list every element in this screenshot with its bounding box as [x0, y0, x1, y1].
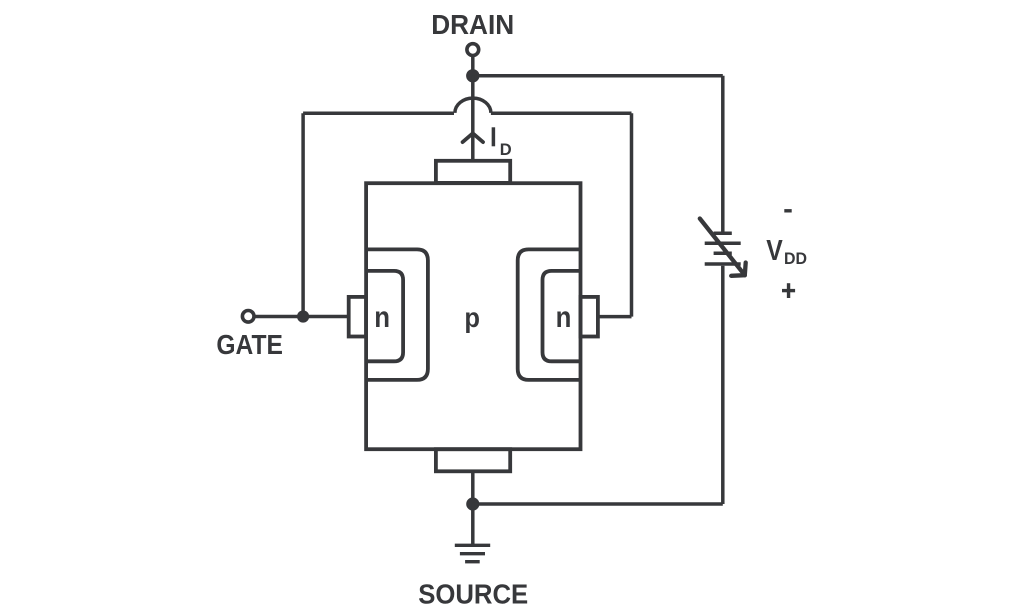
wire hop over drain wire [455, 98, 491, 113]
terminal circle GATE [242, 311, 254, 323]
svg-text:V: V [766, 235, 783, 267]
wire: into right gate contact [598, 315, 632, 319]
battery V_DD plates [705, 233, 741, 264]
svg-text:DD: DD [784, 250, 807, 268]
drain contact pad (top) [436, 161, 510, 183]
right n-region outer boundary [518, 249, 581, 380]
wire: drain vertical into top contact [471, 76, 475, 162]
left n-region outer boundary [366, 249, 428, 380]
left n-region inner boundary [366, 271, 403, 361]
wire: right rail upper (to battery) [721, 76, 725, 233]
terminal circle DRAIN [467, 44, 479, 56]
right gate contact pad [581, 297, 598, 337]
node gate junction dot [297, 310, 309, 322]
node drain junction dot [466, 69, 479, 82]
transistor body (p region) [366, 183, 580, 449]
wire: gate left vertical riser [301, 113, 305, 316]
svg-text:p: p [464, 302, 480, 333]
arrow I_D (current direction chevron) [463, 133, 483, 142]
left gate contact pad [349, 297, 366, 337]
wire: gate top run (right of hop) [491, 112, 632, 116]
svg-text:SOURCE: SOURCE [418, 578, 528, 609]
right n-region inner boundary [543, 271, 581, 361]
label plus (battery bottom) [782, 283, 795, 298]
svg-text:n: n [556, 301, 572, 334]
source contact pad (bottom) [436, 449, 510, 471]
wire: bottom contact to source dot [471, 471, 475, 504]
wire: gate terminal to contact [254, 315, 349, 319]
svg-text:DRAIN: DRAIN [431, 9, 514, 40]
svg-text:n: n [374, 301, 390, 334]
variable-source diagonal arrow [700, 219, 746, 276]
label I_D current bar [492, 127, 496, 146]
svg-text:D: D [500, 141, 512, 159]
wire: right rail lower (from battery) [721, 266, 725, 504]
wire: gate top run (left of hop) [303, 112, 454, 116]
wire: source dot to ground [471, 504, 475, 545]
node source junction dot [466, 497, 479, 510]
ground symbol [455, 545, 490, 561]
wire: gate right vertical drop [630, 113, 634, 316]
wire: drain dot to right rail [473, 74, 723, 78]
wire: source dot to right rail [473, 502, 723, 506]
svg-text:GATE: GATE [216, 329, 283, 360]
wire: drain terminal stub [471, 56, 475, 70]
label minus (battery top) [784, 209, 791, 212]
